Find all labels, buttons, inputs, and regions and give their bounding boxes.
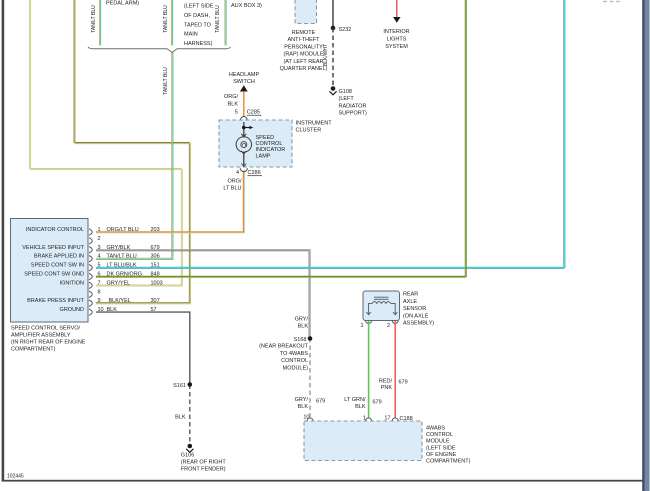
svg-text:SYSTEM: SYSTEM [385,44,408,50]
speed control servo box [11,219,89,323]
svg-text:ASSEMBLY): ASSEMBLY) [403,321,434,327]
junction S232 [331,26,352,33]
svg-text:ORG/LT BLU: ORG/LT BLU [107,227,139,233]
svg-text:8: 8 [98,289,101,295]
faint box fragment top right [603,1,620,3]
wire GRY/BLK 679 (pin 3 to S168, gray+dark pair) [96,250,310,338]
svg-text:(LEFT: (LEFT [339,96,355,102]
wire DK GRN/ORG 848 (pin 6 to top, green+orange pair) [96,0,466,278]
svg-text:1: 1 [98,227,101,233]
label ORG/BLK [224,94,239,108]
wire ORG/LT BLU 203 (pin 1 to instrument cluster C286, orange+lt blue pair) [96,171,245,234]
wire ORG/BLK (arrow to C285) [243,91,245,117]
svg-text:(IN RIGHT REAR OF ENGINE: (IN RIGHT REAR OF ENGINE [11,340,86,346]
svg-text:2: 2 [98,236,101,242]
svg-text:TAN/LT BLU: TAN/LT BLU [215,5,221,33]
wire TAN/LT BLU branch 1 [99,0,100,46]
label GRY/BLK lower with 679 [295,397,326,410]
label (LEFT SIDE OF DASH, TAPED TO MAIN HARNESS) [184,4,214,48]
svg-text:AXLE: AXLE [403,299,417,305]
wire BLK (top to S232, solid) [332,0,334,28]
svg-text:306: 306 [151,254,160,260]
svg-text:LT BLU/BLK: LT BLU/BLK [107,263,137,269]
wire inside cluster (top) [243,122,245,137]
wire BLK/YEL 307 (pin 9 to top, black+yellow pair) [74,0,190,304]
svg-text:4WABS: 4WABS [426,426,445,432]
svg-text:INDICATOR CONTROL: INDICATOR CONTROL [26,227,84,233]
svg-text:LT GRN/: LT GRN/ [344,397,366,403]
svg-text:FRONT FENDER): FRONT FENDER) [181,467,226,473]
label PEDAL ARM) [106,1,139,7]
svg-text:6: 6 [98,272,101,278]
svg-text:S168: S168 [294,337,307,343]
svg-text:LAMP: LAMP [256,153,271,159]
connector C285 pin 5 [235,110,262,124]
svg-text:HARNESS): HARNESS) [184,41,213,47]
svg-text:HEADLAMP: HEADLAMP [229,72,260,78]
svg-text:3: 3 [98,245,101,251]
junction S161 [173,382,192,389]
label LT GRN/BLK with 679 [344,397,381,410]
svg-text:REMOTE: REMOTE [292,30,316,36]
svg-text:INTERIOR: INTERIOR [383,29,409,35]
svg-text:ORG/: ORG/ [224,94,239,100]
wire TAN/LT BLU 306 (pin 4 to brace, tan+teal pair) [96,52,173,259]
sensor coil symbol [366,297,397,315]
wire LT GRN/BLK 679 (sensor pin 1 to module) [368,321,370,419]
arrow to interior lights system [393,17,401,23]
ground G106 [181,444,227,473]
sensor pin arcs [360,321,398,330]
svg-text:BLK: BLK [228,102,239,108]
speed control indicator lamp [236,134,251,154]
label ORG/LT BLU below cluster [223,179,242,192]
svg-text:MODULE: MODULE [426,439,450,445]
frame bottom border [2,480,644,482]
svg-text:TO 4WABS: TO 4WABS [280,351,308,357]
svg-text:GROUND: GROUND [60,307,84,313]
svg-text:IGNITION: IGNITION [60,280,84,286]
svg-text:DK GRN/ORG: DK GRN/ORG [107,272,142,278]
svg-text:INDICATOR: INDICATOR [256,147,286,153]
svg-text:(NEAR BREAKOUT: (NEAR BREAKOUT [259,344,309,350]
wire BLK (S161 to G106, dashed) [189,385,191,444]
svg-text:BRAKE PRESS INPUT: BRAKE PRESS INPUT [27,298,84,304]
label BLK/WHT rotated [323,44,329,66]
instrument cluster box [219,120,292,167]
svg-text:SWITCH: SWITCH [233,79,255,85]
svg-text:INSTRUMENT: INSTRUMENT [296,121,333,127]
svg-text:679: 679 [151,245,160,251]
svg-text:679: 679 [399,380,408,386]
svg-text:ORG/: ORG/ [227,179,242,185]
svg-text:G106: G106 [181,453,194,459]
svg-text:CONTROL: CONTROL [256,141,283,147]
svg-text:203: 203 [151,227,160,233]
svg-text:PNK: PNK [381,385,393,391]
svg-text:102445: 102445 [7,474,24,480]
svg-text:307: 307 [151,298,160,304]
servo pin labels [22,227,84,313]
svg-text:COMPARTMENT): COMPARTMENT) [11,347,56,353]
servo pin chevrons 1-10 [89,229,92,315]
svg-text:10: 10 [303,414,309,420]
svg-text:CLUSTER: CLUSTER [296,128,322,134]
svg-text:1003: 1003 [151,280,163,286]
label INTERIOR LIGHTS SYSTEM [383,29,409,50]
svg-text:AUX BOX 3): AUX BOX 3) [231,3,262,9]
svg-text:SPEED CONT SW IN: SPEED CONT SW IN [31,263,84,269]
svg-text:OF DASH,: OF DASH, [184,13,210,19]
svg-text:C285: C285 [247,110,260,116]
svg-text:S232: S232 [339,27,352,33]
label REAR AXLE SENSOR [403,292,434,327]
svg-text:CONTROL: CONTROL [426,432,453,438]
svg-text:SENSOR: SENSOR [403,306,426,312]
wire RED/PNK 679 (sensor pin 2 to module) [394,321,396,419]
svg-text:TAN/LT BLU: TAN/LT BLU [163,67,169,95]
svg-text:5: 5 [98,263,101,269]
servo wire color labels [107,227,142,313]
svg-text:(ON AXLE: (ON AXLE [403,313,429,319]
label SPEED CONTROL INDICATOR LAMP [256,135,286,159]
svg-text:BRAKE APPLIED IN: BRAKE APPLIED IN [34,254,84,260]
svg-text:GRY/YEL: GRY/YEL [107,280,131,286]
label INSTRUMENT CLUSTER [296,121,333,134]
svg-text:(LEFT SIDE: (LEFT SIDE [426,445,456,451]
label REMOTE ANTI-THEFT PERSONALITY (RAP) MODULE [280,30,328,72]
4WABS control module box [304,421,422,461]
label BLK on ground wire [175,415,186,421]
label GRY/BLK upper [295,317,309,330]
svg-text:QUARTER PANEL): QUARTER PANEL) [280,66,328,72]
wire inside cluster (bottom) [243,152,245,166]
svg-text:RADIATOR: RADIATOR [339,103,367,109]
wire LT BLU/BLK 151 (pin 5 to top, cyan+dark pair) [96,0,565,269]
svg-text:SPEED CONTROL SERVO/: SPEED CONTROL SERVO/ [11,326,81,332]
svg-text:GRY/: GRY/ [295,317,309,323]
label near breakout to 4wabs [259,344,309,372]
svg-text:(LEFT SIDE: (LEFT SIDE [184,4,214,10]
rotated label TAN/LT BLU 3 [215,5,221,33]
frame left border [2,0,5,482]
arrow to headlamp switch [240,85,248,91]
junction S168 [294,336,313,343]
svg-text:VEHICLE SPEED INPUT: VEHICLE SPEED INPUT [22,245,84,251]
svg-text:BLK: BLK [298,324,309,330]
wire RED to interior lights system [396,0,398,17]
module pin 10 [303,414,313,424]
wire BLK/WHT (S232 to G108, dashed) [332,28,334,87]
svg-text:TAPED TO: TAPED TO [184,23,212,29]
svg-text:4: 4 [98,254,101,260]
svg-text:9: 9 [98,298,101,304]
svg-text:COMPARTMENT): COMPARTMENT) [426,459,471,465]
rotated label TAN/LT BLU 2 [163,5,169,33]
RAP module box [295,0,317,24]
svg-text:TAN/LT BLU: TAN/LT BLU [91,5,97,33]
wire TAN/LT BLU branch 3 [225,0,226,46]
svg-text:(REAR OF RIGHT: (REAR OF RIGHT [181,460,227,466]
svg-text:BLK: BLK [298,404,309,410]
sheet number 102445 [7,474,24,480]
label RED/PNK with 679 [379,379,408,392]
svg-text:CONTROL: CONTROL [281,358,308,364]
rotated label TAN/LT BLU 4 below brace [163,67,169,95]
ground G108 [329,86,367,116]
wire BLK 57 (pin 10 to S161, solid) [96,312,190,384]
svg-text:151: 151 [151,263,160,269]
svg-text:ANTI-THEFT: ANTI-THEFT [287,37,320,43]
svg-text:5: 5 [235,110,238,116]
svg-text:SPEED: SPEED [256,135,275,141]
label HEADLAMP SWITCH [229,72,260,85]
svg-text:REAR: REAR [403,292,418,298]
svg-text:1: 1 [360,323,363,329]
svg-text:SPEED CONT SW GND: SPEED CONT SW GND [24,272,84,278]
svg-text:GRY/BLK: GRY/BLK [107,245,131,251]
svg-text:679: 679 [373,400,382,406]
label AUX BOX 3) [231,3,262,9]
svg-text:7: 7 [98,280,101,286]
svg-text:GRY/: GRY/ [295,397,309,403]
svg-text:57: 57 [151,307,157,313]
svg-text:TAN/LT BLU: TAN/LT BLU [107,254,137,260]
frame right scrollbar band [642,0,649,491]
svg-text:AMPLIFIER ASSEMBLY: AMPLIFIER ASSEMBLY [11,333,71,339]
wire GRY/BLK 679 (S168 to 4WABS module, dashed) [309,338,311,419]
svg-text:SUPPORT): SUPPORT) [339,111,367,117]
svg-text:BLK/WHT: BLK/WHT [323,44,329,66]
svg-text:MODULE): MODULE) [283,365,309,371]
svg-text:LIGHTS: LIGHTS [387,37,407,43]
rear axle sensor box [363,291,400,321]
label 4WABS CONTROL MODULE [426,426,471,465]
svg-text:2: 2 [387,323,390,329]
svg-text:4: 4 [236,170,239,176]
svg-text:TAN/LT BLU: TAN/LT BLU [163,5,169,33]
svg-text:RED/: RED/ [379,379,393,385]
svg-text:PERSONALITY: PERSONALITY [284,44,323,50]
svg-text:LT BLU: LT BLU [223,186,241,192]
svg-text:OF ENGINE: OF ENGINE [426,452,457,458]
svg-text:(AT LEFT REAR: (AT LEFT REAR [283,59,323,65]
svg-text:848: 848 [151,272,160,278]
svg-text:BLK: BLK [175,415,186,421]
servo circuit numbers [151,227,163,313]
connector C286 pin 4 [236,164,262,177]
svg-text:BLK/YEL: BLK/YEL [109,298,131,304]
svg-text:BLK: BLK [107,307,118,313]
wire TAN/LT BLU branch 2 [171,0,172,46]
node with pigtail arrow [242,126,253,130]
svg-text:G108: G108 [339,89,352,95]
rotated label TAN/LT BLU 1 [91,5,97,33]
servo pin numbers [98,227,104,313]
label speed control servo assembly [11,326,86,353]
svg-text:S161: S161 [173,383,186,389]
svg-text:C286: C286 [248,170,261,176]
brace joining TAN/LT BLU branches [88,47,231,52]
svg-text:MAIN: MAIN [184,32,198,38]
svg-text:BLK: BLK [355,404,366,410]
svg-text:(RAP) MODULE: (RAP) MODULE [283,52,323,58]
svg-text:10: 10 [98,307,104,313]
svg-text:679: 679 [316,399,325,405]
module pins 1, 17, connector C188 [363,416,415,424]
wire GRY/YEL 1003 (pin 7 to top, gray+yellow pair) [30,0,183,286]
svg-text:PEDAL ARM): PEDAL ARM) [106,1,139,7]
